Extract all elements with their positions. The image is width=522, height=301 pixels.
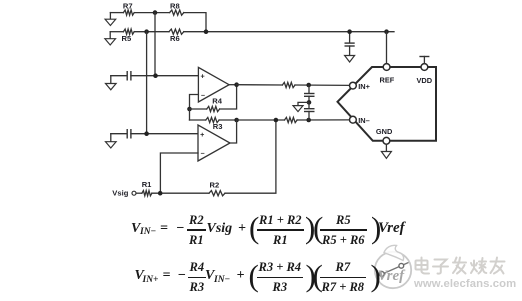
wire vertical from R5R6 node: [146, 32, 148, 134]
svg-text:R1: R1: [142, 180, 152, 189]
wire IN- line to series resistor: [237, 119, 285, 121]
ground cap row2: [110, 134, 112, 142]
svg-text:REF: REF: [380, 75, 395, 84]
wire R3 left lead: [190, 119, 206, 121]
ground cap row1: [110, 76, 112, 84]
svg-text:R8: R8: [170, 1, 180, 10]
node U1 output: [234, 82, 239, 87]
pin IN+: [350, 82, 357, 89]
node R2 tap: [274, 118, 279, 123]
svg-text:+: +: [200, 130, 204, 139]
wire U2 output up: [230, 120, 237, 143]
resistor R6: [169, 29, 184, 34]
wire cap row1 right: [131, 75, 199, 77]
wire to IN- pin: [297, 119, 349, 121]
node rail ref drop: [384, 29, 389, 34]
resistor R3: [206, 117, 219, 122]
node cap row2 junction: [144, 131, 149, 136]
wire row1 left: [110, 12, 123, 14]
wire R1 to node: [152, 192, 209, 194]
svg-text:IN+: IN+: [358, 82, 370, 91]
pin IN-: [350, 116, 357, 123]
wire cap row2 right: [131, 133, 198, 135]
pin GND: [383, 137, 390, 144]
wire Vsig to R1: [136, 192, 142, 194]
pin VDD: [421, 64, 428, 71]
resistor R1: [142, 191, 152, 196]
wire rail row2: [184, 31, 394, 33]
resistor series IN+: [282, 82, 295, 87]
svg-text:R3: R3: [213, 122, 223, 131]
svg-text:R4: R4: [212, 97, 222, 106]
svg-text:R5: R5: [122, 34, 132, 43]
svg-text:VDD: VDD: [417, 76, 433, 85]
node R1-R2 junction: [158, 191, 163, 196]
wire to IN+ filter node: [295, 84, 349, 86]
svg-text:–: –: [201, 149, 205, 158]
resistor R4: [207, 106, 220, 111]
svg-text:R6: R6: [170, 34, 180, 43]
node cap middle: [307, 100, 312, 105]
resistor R8: [170, 10, 184, 15]
capacitor row1: [126, 71, 128, 81]
wire R8 right down to rail: [184, 13, 206, 32]
node cap row1 junction: [153, 73, 158, 78]
node IN+ filter: [306, 83, 311, 88]
wire R2 right up to IN- line: [225, 120, 276, 193]
svg-text:+: +: [201, 72, 205, 81]
op-amp U1: [198, 67, 229, 102]
ground row2: [109, 32, 111, 39]
node rail-R8 junction: [204, 29, 209, 34]
terminal Vsig: [132, 191, 136, 195]
wire rail to REF: [386, 32, 388, 64]
wire cap row1 left: [111, 75, 127, 77]
svg-text:Vsig: Vsig: [112, 189, 128, 198]
wire R4 right to U1 output: [220, 85, 237, 109]
resistor R2: [209, 191, 225, 196]
resistor series IN-: [285, 117, 298, 122]
equation VIN-: [131, 215, 411, 246]
wire cap row2 left: [111, 133, 127, 135]
svg-text:R2: R2: [210, 181, 220, 190]
wire R3 right: [219, 119, 237, 121]
wire row2 left: [110, 31, 123, 33]
node U2 output junction: [234, 118, 239, 123]
node IN- filter: [306, 118, 311, 123]
watermark url text: [414, 278, 516, 290]
svg-text:–: –: [201, 90, 205, 99]
svg-text:IN–: IN–: [358, 116, 370, 125]
pin REF: [383, 64, 390, 71]
node U1 feedback: [187, 107, 192, 112]
capacitor ref rail: [349, 32, 351, 43]
ground ref cap: [345, 56, 355, 63]
wire R7 to R8: [134, 12, 169, 14]
equation VIN+: [135, 262, 415, 293]
wire node A down: [189, 109, 191, 120]
wire R4 left lead: [190, 108, 207, 110]
resistor R7: [123, 10, 134, 15]
wire U1 output: [229, 84, 237, 86]
node R5-R6 junction: [144, 29, 149, 34]
resistor R5: [123, 29, 134, 34]
capacitor diff bottom: [308, 102, 310, 108]
ground cap middle: [298, 102, 309, 105]
op-amp U2: [198, 125, 230, 161]
svg-text:R7: R7: [123, 2, 133, 11]
wire vertical from R7R8 node: [154, 13, 156, 76]
svg-text:GND: GND: [376, 127, 393, 136]
capacitor row2: [126, 129, 128, 139]
wire R5 to R6: [134, 31, 169, 33]
node row1 junction: [153, 10, 158, 15]
power stub VDD: [423, 57, 425, 64]
node rail cap: [347, 29, 352, 34]
ground row1: [109, 13, 111, 20]
watermark logo: [375, 245, 411, 288]
ground ADC: [385, 144, 387, 151]
wire U2 minus input: [160, 153, 198, 193]
wire U1 minus input: [190, 95, 199, 110]
capacitor diff top: [308, 85, 310, 93]
watermark chinese text (vector approximation): [416, 258, 505, 274]
ADC U3 body: [338, 67, 437, 141]
wire U1 output to series resistor: [237, 84, 283, 86]
